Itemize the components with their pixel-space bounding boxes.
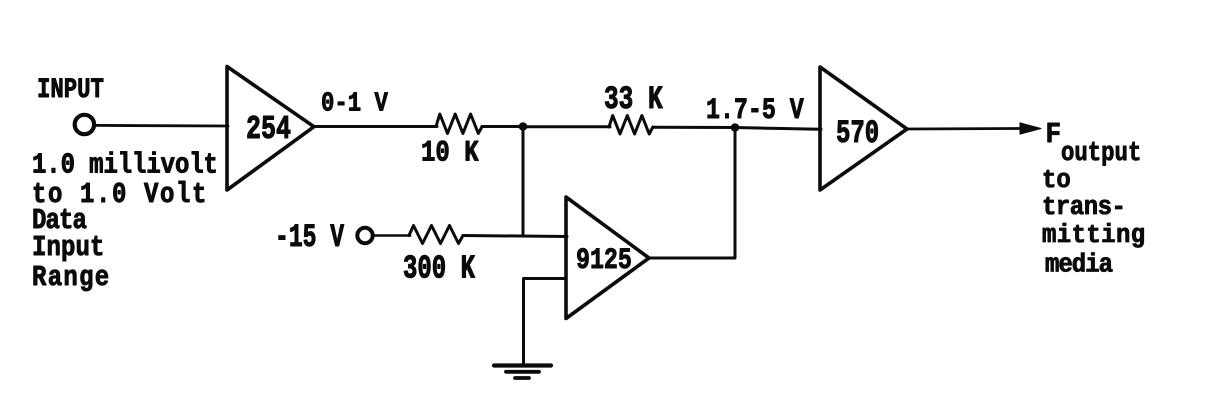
U3 value label 570 [836, 115, 879, 153]
resistor R2 (33 K) [609, 116, 653, 135]
net label 0-1 V [321, 89, 388, 120]
U1 value label 254 [246, 111, 291, 148]
svg-text:Range: Range [32, 261, 110, 293]
ground [494, 366, 551, 379]
wire: node A down to summing junction [522, 127, 525, 236]
U2 value label 9125 [576, 245, 632, 279]
input terminal circle [75, 115, 94, 134]
op-amp U2 (9125) [566, 197, 649, 319]
svg-text:Input: Input [32, 231, 104, 263]
svg-text:570: 570 [836, 115, 879, 153]
wire: U2 lower input stub to ground [524, 279, 567, 366]
node A junction dot [519, 122, 528, 131]
input terminal label INPUT [37, 74, 104, 106]
node B junction dot [731, 123, 740, 132]
op-amp U1 (254) [227, 67, 314, 191]
svg-text:output: output [1061, 139, 1141, 168]
output arrowhead [1020, 123, 1041, 134]
svg-text:media: media [1045, 251, 1113, 280]
svg-text:0-1 V: 0-1 V [321, 89, 388, 120]
op-amp U3 (570) [820, 67, 907, 190]
resistor R3 (300 K) [409, 226, 463, 244]
annotation: 1.0 millivolt to 1.0 Volt Data Input Range [32, 149, 218, 294]
svg-text:F: F [1046, 119, 1062, 151]
output label subscript output [1061, 139, 1141, 168]
svg-text:254: 254 [246, 111, 291, 148]
svg-text:9125: 9125 [576, 245, 632, 279]
svg-text:mitting: mitting [1042, 221, 1146, 250]
wire: -15 V terminal to resistor R3 [374, 234, 410, 237]
svg-text:to: to [1042, 166, 1071, 195]
svg-text:33 K: 33 K [604, 81, 663, 118]
svg-text:INPUT: INPUT [37, 74, 104, 106]
wire: U2 output right then up to node B [649, 128, 735, 259]
wire: R1 to node A [482, 125, 524, 128]
power terminal label -15 V [275, 221, 344, 257]
wire: node B to op-amp U3 input [735, 128, 821, 130]
svg-text:-15 V: -15 V [275, 221, 344, 257]
resistor R1 (10 K) [436, 114, 482, 134]
wire: node A to resistor R2 [523, 125, 610, 128]
wire: R2 to node B [653, 126, 736, 129]
svg-text:1.0 millivolt: 1.0 millivolt [32, 149, 218, 181]
-15 V terminal circle [357, 228, 372, 243]
R3 value label 300 K [403, 250, 476, 288]
svg-text:trans-: trans- [1042, 193, 1125, 222]
svg-text:1.7-5 V: 1.7-5 V [706, 95, 805, 129]
wire: U1 output to resistor R1 [314, 125, 437, 128]
R1 value label 10 K [421, 138, 479, 171]
wire: U3 output to transmitting media [907, 127, 1022, 130]
svg-text:10 K: 10 K [421, 138, 479, 171]
svg-text:300 K: 300 K [403, 250, 476, 288]
output label F [1046, 119, 1062, 151]
wire: R3 to op-amp U2 input [463, 236, 567, 237]
net label 1.7-5 V [706, 95, 805, 129]
wire: input terminal to op-amp U1 [95, 124, 228, 127]
R2 value label 33 K [604, 81, 663, 118]
annotation: to transmitting media [1042, 166, 1146, 280]
